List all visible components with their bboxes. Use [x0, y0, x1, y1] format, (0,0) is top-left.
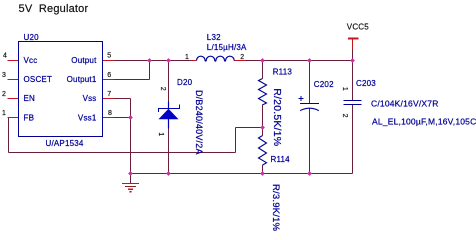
svg-text:2: 2 — [240, 54, 244, 61]
svg-text:1: 1 — [185, 54, 189, 61]
svg-text:C203: C203 — [356, 79, 376, 88]
svg-text:Output: Output — [71, 56, 97, 65]
svg-text:C/104K/16V/X7R: C/104K/16V/X7R — [371, 98, 439, 108]
svg-text:Vcc: Vcc — [24, 56, 38, 65]
svg-text:U20: U20 — [24, 33, 40, 42]
svg-text:2: 2 — [2, 91, 6, 98]
svg-text:1: 1 — [2, 110, 6, 117]
svg-text:AL_EL,100µF,M,16V,105C: AL_EL,100µF,M,16V,105C — [372, 117, 476, 127]
svg-text:R/3.9K/1%: R/3.9K/1% — [270, 184, 281, 232]
svg-text:EN: EN — [24, 94, 36, 103]
svg-text:U/AP1534: U/AP1534 — [46, 139, 84, 148]
svg-text:R/20.5K/1%: R/20.5K/1% — [271, 88, 283, 146]
svg-text:5: 5 — [107, 53, 111, 60]
svg-text:D/B240/40V/2A: D/B240/40V/2A — [194, 90, 204, 155]
svg-text:6: 6 — [107, 72, 111, 79]
svg-text:OSCET: OSCET — [24, 75, 53, 84]
svg-text:VCC5: VCC5 — [347, 22, 369, 31]
svg-text:L/15µH/3A: L/15µH/3A — [207, 43, 247, 52]
svg-text:D20: D20 — [177, 78, 193, 87]
svg-text:1: 1 — [341, 87, 348, 91]
svg-text:L32: L32 — [207, 33, 221, 42]
svg-text:FB: FB — [24, 113, 35, 122]
svg-text:Output1: Output1 — [67, 75, 97, 84]
svg-text:8: 8 — [108, 110, 112, 117]
svg-text:2: 2 — [159, 87, 166, 91]
svg-text:2: 2 — [341, 114, 348, 118]
svg-text:Vss1: Vss1 — [78, 113, 97, 122]
svg-text:C202: C202 — [314, 80, 334, 89]
svg-text:5V Regulator: 5V Regulator — [19, 3, 89, 15]
svg-text:4: 4 — [3, 53, 7, 60]
svg-text:7: 7 — [107, 91, 111, 98]
svg-text:Vss: Vss — [83, 94, 97, 103]
svg-text:3: 3 — [2, 72, 6, 79]
svg-text:R114: R114 — [271, 155, 291, 164]
svg-text:1: 1 — [157, 132, 164, 136]
svg-text:R113: R113 — [273, 67, 293, 76]
